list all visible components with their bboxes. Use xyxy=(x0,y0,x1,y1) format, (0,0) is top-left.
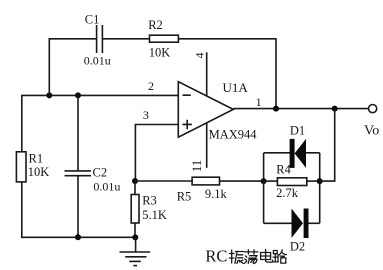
svg-text:R4: R4 xyxy=(276,162,291,176)
op-amp U1A xyxy=(178,80,257,141)
svg-text:R1: R1 xyxy=(29,152,44,166)
wire left rail upper (R1 top to pin2 net) xyxy=(21,95,23,151)
resistor R1 xyxy=(16,152,49,182)
svg-text:U1A: U1A xyxy=(223,80,249,95)
resistor R3 xyxy=(131,194,167,223)
caption char dang xyxy=(245,250,258,264)
svg-text:D1: D1 xyxy=(290,124,305,138)
resistor R2 xyxy=(148,18,178,59)
svg-text:D2: D2 xyxy=(290,240,305,254)
resistor R5 xyxy=(177,177,228,204)
svg-text:4: 4 xyxy=(193,53,207,59)
node ground junction xyxy=(132,234,138,240)
wire pin3 xyxy=(135,125,178,182)
wire D1 left xyxy=(264,152,290,154)
svg-text:5.1K: 5.1K xyxy=(142,208,167,222)
svg-text:R5: R5 xyxy=(177,190,192,204)
node diode network on output xyxy=(332,106,338,112)
wire top net pin2 xyxy=(21,94,178,96)
wire D2 right xyxy=(309,222,320,224)
wire bottom rail xyxy=(21,236,136,238)
node network right xyxy=(317,178,323,184)
svg-text:RC: RC xyxy=(205,247,227,266)
wire D1 right xyxy=(306,152,320,154)
capacitor C1 xyxy=(84,12,111,67)
capacitor C2 xyxy=(65,165,121,193)
pin 11 stub xyxy=(206,123,208,168)
wire network left edge xyxy=(263,153,265,224)
svg-text:R2: R2 xyxy=(148,18,163,32)
svg-text:0.01u: 0.01u xyxy=(84,54,111,68)
node feedback R2 on output xyxy=(273,106,279,112)
wire network right edge xyxy=(319,153,321,224)
wire R3 bottom xyxy=(134,223,136,238)
wire D2 left xyxy=(264,222,292,224)
svg-text:R3: R3 xyxy=(142,194,157,208)
wire C2 branch upper xyxy=(77,95,79,170)
wire C1 branch xyxy=(49,39,96,96)
wire R5 to diode network xyxy=(220,180,264,182)
diode D1 xyxy=(290,124,306,168)
wire output net xyxy=(233,108,368,110)
wire network to output node xyxy=(320,109,335,182)
svg-text:C2: C2 xyxy=(93,165,108,179)
svg-text:9.1k: 9.1k xyxy=(205,187,228,201)
svg-text:10K: 10K xyxy=(28,165,50,179)
svg-text:3: 3 xyxy=(143,108,149,122)
svg-text:11: 11 xyxy=(189,160,204,173)
caption char zhen xyxy=(230,250,244,264)
wire R4 right xyxy=(307,180,320,182)
node B network left xyxy=(261,178,267,184)
wire C2 branch lower xyxy=(77,176,79,238)
caption RC oscillator circuit xyxy=(205,247,286,266)
wire R2 to output node xyxy=(178,39,276,109)
wire R5 left xyxy=(135,180,192,182)
svg-text:MAX944: MAX944 xyxy=(209,128,258,142)
caption char dian xyxy=(261,250,273,263)
node A inverting input / R3 / R5 xyxy=(132,178,138,184)
wire left rail lower (R1 bottom to ground rail) xyxy=(21,182,23,238)
node C1 tap on pin2 net xyxy=(46,92,52,98)
diode D2 xyxy=(290,209,309,254)
resistor R4 xyxy=(276,162,307,199)
svg-text:2.7k: 2.7k xyxy=(276,186,299,200)
svg-text:2: 2 xyxy=(148,79,154,93)
svg-text:0.01u: 0.01u xyxy=(93,180,120,194)
node C2 to bottom rail xyxy=(75,234,81,240)
caption char lu xyxy=(273,250,287,263)
ground xyxy=(120,237,151,265)
node C2 tap on pin2 net xyxy=(75,92,81,98)
svg-text:C1: C1 xyxy=(85,12,100,26)
wire R4 left xyxy=(264,180,278,182)
wire R3 top xyxy=(134,181,136,195)
pin 4 stub xyxy=(206,52,208,96)
svg-text:1: 1 xyxy=(256,95,262,109)
svg-text:10K: 10K xyxy=(149,45,171,59)
terminal Vo xyxy=(364,105,379,139)
svg-text:Vo: Vo xyxy=(364,124,379,139)
wire C1 to R2 xyxy=(102,38,149,40)
